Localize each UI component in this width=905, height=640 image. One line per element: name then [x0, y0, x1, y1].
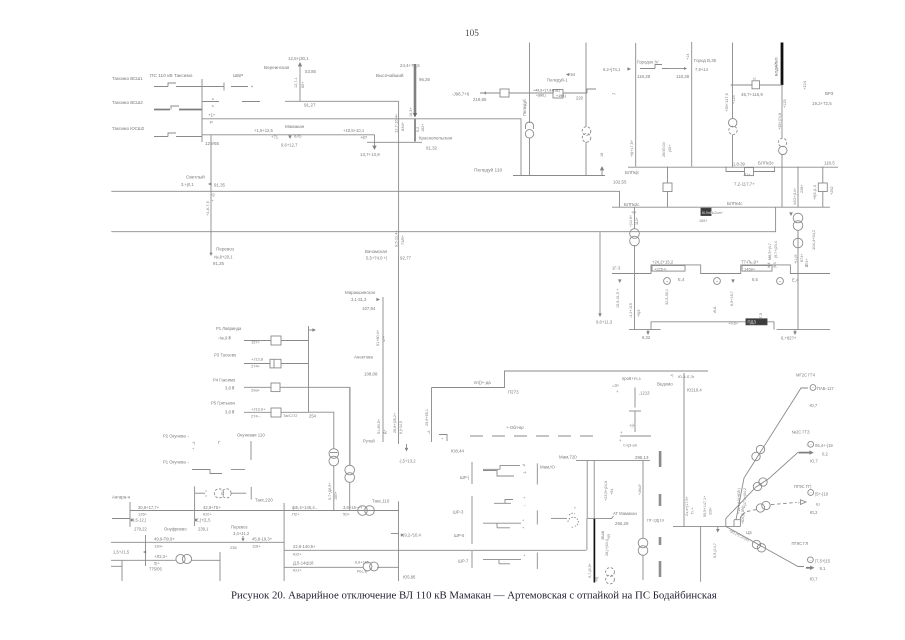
wire riser from long line to fault point [586, 518, 588, 549]
svg-text:+35+|74,6: +35+|74,6 [778, 113, 782, 130]
svg-text:←: ← [522, 470, 526, 475]
svg-text:22,6-140,5+: 22,6-140,5+ [293, 544, 316, 549]
svg-text:108,08: 108,08 [364, 372, 378, 377]
svg-text:19,2-/10,4: 19,2-/10,4 [402, 533, 422, 538]
svg-text:П,-+: П,-+ [691, 507, 695, 514]
svg-text:256,29: 256,29 [615, 521, 629, 526]
svg-text:112+: 112+ [635, 217, 639, 225]
breaker chain x=667.5 [667, 167, 669, 184]
svg-text:Таксимо ВСШ2: Таксимо ВСШ2 [112, 100, 143, 105]
svg-text:Ю,7: Ю,7 [810, 577, 818, 582]
wire lower tie y=321.8 [651, 322, 774, 330]
svg-text:Р1 Лавринда: Р1 Лавринда [216, 326, 242, 331]
svg-text:Мамакан: Мамакан [285, 124, 305, 129]
svg-text:Ю5,86: Ю5,86 [403, 575, 416, 580]
svg-text:29,9+65,1: 29,9+65,1 [425, 409, 429, 426]
svg-text:0,7+Д6,9+: 0,7+Д6,9+ [328, 482, 332, 500]
svg-text:+5|9: +5|9 [637, 310, 641, 317]
generator symbol GG4 [810, 385, 816, 391]
svg-text:6,5: 6,5 [752, 277, 758, 282]
svg-text:3,6+15—+: 3,6+15—+ [343, 505, 363, 510]
svg-text:+23,5+|24,6: +23,5+|24,6 [604, 481, 608, 501]
svg-text:874+: 874+ [805, 258, 809, 267]
svg-text:Р3 Тасеево: Р3 Тасеево [214, 353, 237, 358]
load arrow Vereinskaya [299, 64, 301, 101]
svg-text:Ю2+: Ю2+ [293, 552, 302, 557]
svg-text:9,6+12,7: 9,6+12,7 [281, 143, 298, 148]
svg-text:42,9+Г5+: 42,9+Г5+ [203, 505, 221, 510]
svg-text:ШР-|: ШР-| [460, 475, 469, 480]
svg-text:50+: 50+ [343, 512, 350, 517]
wire left stub [112, 518, 130, 520]
svg-text:295,13: 295,13 [635, 455, 649, 460]
svg-text:+6?: +6? [360, 135, 368, 140]
fault squiggle on Mamakan-Artemovskaya line [551, 517, 567, 519]
wire double drop from Mam220 bus [586, 461, 588, 519]
generator branch GL (diagonal down) [726, 526, 804, 566]
wire line y=93 with breakers [480, 89, 596, 93]
svg-text:Д,5-14ф18: Д,5-14ф18 [293, 561, 314, 566]
line Vysochaishiy (bold) [414, 64, 417, 114]
bus Mam 220 [576, 460, 650, 462]
svg-text:96,26: 96,26 [419, 77, 431, 82]
bypass with breaker (1,8-39) [726, 167, 775, 172]
svg-text:-J98,7+6: -J98,7+6 [452, 92, 470, 97]
svg-text:Е,|+|1,5: Е,|+|1,5 [196, 518, 211, 523]
svg-text:№,8+20,1: №,8+20,1 [214, 255, 233, 260]
svg-text:30,6+17,7+: 30,6+17,7+ [138, 505, 160, 510]
ShR row 2 jog [494, 500, 513, 504]
wire x=431.5 drop [431, 388, 433, 443]
svg-text:3,8 ₴: 3,8 ₴ [225, 386, 235, 391]
svg-text:3,4+J1,2: 3,4+J1,2 [233, 531, 250, 536]
bus Okunevaya vertical [308, 326, 310, 412]
svg-text:91,35: 91,35 [214, 183, 226, 188]
svg-text:ПАБ-117: ПАБ-117 [817, 386, 834, 391]
svg-text:91,27: 91,27 [304, 103, 316, 108]
svg-text:+9|9-|1,3: +9|9-|1,3 [813, 185, 817, 200]
svg-text:Ведомо: Ведомо [657, 382, 673, 387]
svg-text:12,7-1: 12,7-1 [294, 77, 298, 88]
svg-text:Р4 Гаксимо: Р4 Гаксимо [213, 378, 236, 383]
svg-text:15,9-31,5 +: 15,9-31,5 + [616, 288, 620, 308]
svg-text:0,2: 0,2 [822, 452, 828, 457]
arrow 9,1 [806, 567, 811, 569]
svg-text:92,77: 92,77 [400, 256, 412, 261]
svg-text:ШР-7: ШР-7 [458, 559, 469, 564]
svg-text:+26ы?: +26ы? [638, 484, 642, 495]
svg-text:Перевоз: Перевоз [216, 247, 234, 252]
svg-text:6,9+16,7: 6,9+16,7 [730, 291, 734, 306]
wire x=600 drop with arrow [599, 232, 601, 315]
svg-text:+|: +| [427, 430, 430, 434]
wire riser x=684 [683, 373, 685, 526]
bus vertical x=284 [283, 503, 285, 581]
svg-text:6,2+j74,1: 6,2+j74,1 [603, 67, 621, 72]
svg-text:Пеледуй-1: Пеледуй-1 [547, 78, 568, 83]
svg-text:АЧ1: АЧ1 [713, 306, 717, 313]
wire long corridor line A (y=191) [111, 191, 619, 207]
svg-text:Окуневая 110: Окуневая 110 [237, 433, 265, 438]
load arrow 13,7+13,9 [374, 142, 376, 148]
svg-text:5|+: 5|+ [154, 561, 160, 566]
wire line BLPk1s y=166.5 [628, 166, 838, 168]
svg-text:Вереинская: Вереинская [264, 65, 290, 70]
svg-text:91,25: 91,25 [213, 261, 225, 266]
svg-text:6,6+185—: 6,6+185— [355, 561, 373, 565]
transformer 3-winding at x=798 [789, 212, 793, 216]
svg-text:239,1: 239,1 [198, 527, 209, 532]
svg-text:Мам,Ю: Мам,Ю [540, 465, 555, 470]
transformer 2-winding x=635 [630, 229, 640, 239]
svg-text:*: * [574, 506, 576, 511]
svg-text:155+: 155+ [699, 219, 708, 223]
svg-text:Ю2+: Ю2+ [203, 512, 212, 517]
svg-text:Такс,110: Такс,110 [372, 499, 390, 504]
wire Svetlyi vertical [210, 135, 212, 255]
svg-text:9,1: 9,1 [820, 566, 826, 571]
generator symbol GG3 [808, 441, 814, 447]
svg-text:т.п(3-ап: т.п(3-ап [623, 443, 637, 448]
svg-text:Онуфриево: Онуфриево [164, 527, 187, 532]
svg-text:51-80,5+: 51-80,5+ [377, 418, 381, 434]
svg-text:162+: 162+ [421, 123, 425, 132]
transformer 2w at x=349.7 [349, 387, 351, 465]
svg-text:Городок IV: Городок IV [637, 60, 659, 65]
svg-text:5,2: 5,2 [416, 127, 420, 132]
svg-text:-№,9 ₴: -№,9 ₴ [218, 336, 232, 341]
svg-text:316+: 316+ [709, 507, 713, 515]
svg-text:13,7+13,9: 13,7+13,9 [360, 152, 380, 157]
svg-text:Краснопольская: Краснопольская [419, 136, 453, 141]
svg-text:130+: 130+ [154, 544, 164, 549]
svg-text:Таксимо ВСШ1: Таксимо ВСШ1 [112, 76, 143, 81]
svg-text:ШР-3: ШР-3 [453, 510, 464, 515]
svg-text:БОДАЙБО: БОДАЙБО [775, 57, 779, 76]
breaker Q1 [500, 89, 509, 97]
svg-text:228+: 228+ [800, 184, 804, 193]
feeder vertical x=732.5 with transformer [732, 43, 734, 119]
svg-text:БЛПк4с: БЛПк4с [727, 201, 743, 206]
svg-text:9,5-11,4+: 9,5-11,4+ [394, 230, 399, 247]
svg-text:+190,|: +190,| [556, 94, 566, 98]
svg-text:6,|+14,5: 6,|+14,5 [399, 421, 403, 434]
svg-text:+05: +05 [607, 534, 611, 540]
vertical x=194.6 to transformer 220/110 [194, 486, 196, 526]
svg-text:49,9-П9,9+: 49,9-П9,9+ [154, 537, 175, 542]
svg-text:Д+: Д+ [383, 429, 387, 434]
svg-text:2ч,з+|17,5+: 2ч,з+|17,5+ [685, 496, 689, 516]
wire line BLPk2s y=207.2 [612, 206, 830, 208]
svg-text:Р: Р [210, 120, 213, 125]
svg-text:51+80,4+: 51+80,4+ [376, 329, 380, 346]
svg-text:-71+: -71+ [743, 173, 751, 177]
svg-text:Вачамская: Вачамская [365, 249, 388, 254]
svg-text:7,9+14: 7,9+14 [695, 67, 709, 72]
svg-text:ПГ9С ГЛ: ПГ9С ГЛ [792, 541, 809, 546]
svg-text:Ц5: Ц5 [746, 530, 752, 535]
svg-text:53,85: 53,85 [305, 69, 317, 74]
svg-text:118+: 118+ [252, 544, 261, 549]
wire stub down x=635 with open disconnector [634, 388, 636, 408]
svg-text:219,85: 219,85 [473, 97, 487, 102]
svg-text:-4,2+J19: -4,2+J19 [629, 303, 633, 318]
svg-text:№2С ГГЗ: №2С ГГЗ [792, 430, 810, 435]
line y=567 with transformer circles [284, 566, 399, 568]
svg-text:+|8Ю,|: +|8Ю,| [536, 94, 546, 98]
bus Bodaibinskaya 110 [673, 525, 740, 527]
wire bottom stub right [777, 329, 830, 331]
svg-text:3,8 ₴: 3,8 ₴ [225, 410, 235, 415]
svg-text:+225+|: +225+| [654, 266, 666, 271]
svg-text:19,2+72,5: 19,2+72,5 [812, 101, 832, 106]
svg-text:17+: 17+ [382, 336, 386, 342]
svg-text:ПС 110 кВ Таксимо: ПС 110 кВ Таксимо [150, 73, 193, 79]
svg-text:5,9-|14,7: 5,9-|14,7 [713, 543, 717, 558]
svg-text:+125: +125 [783, 99, 787, 108]
svg-text:**-: **- [612, 92, 617, 97]
svg-text:104,4+34,2: 104,4+34,2 [811, 229, 816, 250]
svg-text:Светлый: Светлый [186, 174, 205, 180]
svg-text:+71: +71 [271, 135, 279, 140]
svg-text:+J13,8: +J13,8 [251, 357, 264, 362]
wire Artemovskaya trunk lower x=398.5 [398, 256, 400, 444]
feeder vertical x=586 with transformer [585, 43, 587, 128]
svg-text:№4: №4 [767, 262, 771, 268]
svg-text:3,1-31,3: 3,1-31,3 [351, 297, 367, 302]
step bracket left of Mam bus [483, 471, 514, 477]
svg-text:ВРЗ: ВРЗ [825, 91, 834, 96]
riser stubs to diagonals [726, 517, 741, 526]
generator branch GG3 (diagonal) [726, 452, 798, 518]
wire stub right of bus [202, 101, 219, 103]
svg-text:ШР-5: ШР-5 [454, 533, 465, 538]
svg-text:про8+гч,з: про8+гч,з [622, 376, 641, 381]
wire line y=371 (otpaika corridor) [432, 371, 709, 388]
long line y=550 to fault riser [284, 549, 587, 551]
generator symbol GG1 [808, 490, 814, 496]
svg-text:Маракшинское: Маракшинское [345, 290, 376, 295]
svg-text:279,22: 279,22 [134, 527, 147, 532]
svg-text:+|17,3+|04,2: +|17,3+|04,2 [743, 488, 747, 508]
svg-text:|7,5+|15: |7,5+|15 [815, 559, 831, 564]
bus 1G-3 with raised sections [612, 265, 830, 274]
line y=542 Perevoz [111, 541, 284, 543]
wire corner x=775.6 linking y207 and y232 [775, 207, 777, 232]
svg-text:118,5: 118,5 [824, 161, 835, 166]
transformer 2w at x=333.8 [329, 449, 339, 459]
wire drop x=700.6 [700, 526, 702, 581]
svg-text:73/5+: 73/5+ [400, 234, 405, 245]
svg-text:Пеледуй: Пеледуй [522, 99, 527, 116]
svg-text:+|+: +|+ [629, 423, 636, 428]
svg-text:П2+: П2+ [292, 512, 300, 517]
svg-text:50,5+147,1+: 50,5+147,1+ [703, 495, 707, 517]
generator branch GG1 (dashed, disconnected) [740, 513, 745, 518]
svg-text:874+: 874+ [800, 253, 804, 262]
bus vertical x=398.5 lower [398, 501, 400, 581]
svg-text:+10,5+10,1: +10,5+10,1 [343, 128, 365, 133]
svg-text:←: ← [523, 503, 527, 508]
L stub bottom left [111, 560, 122, 581]
generator G1 symbol [664, 278, 671, 285]
svg-text:|40+: |40+ [668, 144, 672, 152]
svg-text:220: 220 [576, 96, 584, 101]
svg-text:Ю,7: Ю,7 [810, 403, 818, 408]
svg-text:Таксимо ЮСШ2: Таксимо ЮСШ2 [112, 126, 145, 131]
wire line 91,27 [285, 100, 399, 102]
svg-text:18: 18 [600, 153, 604, 157]
svg-text:+J13,9+: +J13,9+ [251, 407, 266, 412]
svg-text:9,6+11,3: 9,6+11,3 [596, 320, 613, 325]
junction box dark [701, 208, 711, 215]
feeder Gorod B with arrow [691, 42, 693, 167]
line y=560 with transformer circles [111, 559, 176, 561]
svg-text:+44,9+17,9+|18,|: +44,9+17,9+|18,| [533, 89, 560, 93]
disconnected transformer (dashed circles) [606, 568, 615, 577]
wire transformer leg x=635 down to 1G-3 lower bus [634, 207, 636, 229]
wire Mamakan line [202, 135, 422, 143]
wire long corridor line B (y=231.7) [111, 231, 775, 233]
svg-text:44/2+|14+: 44/2+|14+ [793, 187, 797, 205]
svg-text:254: 254 [309, 414, 317, 419]
svg-text:Высочайший: Высочайший [376, 72, 404, 78]
svg-text:+14: +14 [686, 54, 690, 60]
wire feeder row 2 (thick) [154, 109, 170, 111]
svg-text:+|1,|5: +|1,|5 [794, 255, 798, 264]
bus Peledui 110 [513, 175, 605, 177]
svg-text:Город В,35: Город В,35 [694, 58, 717, 63]
svg-text:ПГ9С ГГ|: ПГ9С ГГ| [794, 484, 811, 489]
svg-text:29а+: 29а+ [251, 388, 261, 393]
svg-text:ЗВАВ: ЗВАВ [601, 530, 605, 540]
svg-text:|9,7+|20,4: |9,7+|20,4 [774, 241, 778, 258]
svg-text:Ангара-н: Ангара-н [112, 495, 131, 500]
svg-text:5,5+74,0 +|: 5,5+74,0 +| [366, 256, 387, 261]
generator G3 symbol [777, 278, 784, 285]
svg-text:60+: 60+ [301, 81, 305, 88]
svg-text:=3+: =3+ [612, 383, 620, 388]
svg-text:9,7-|6,5+: 9,7-|6,5+ [588, 562, 592, 578]
svg-text:ПГ-2Д|19: ПГ-2Д|19 [647, 518, 665, 523]
svg-text:-|,5+13,2: -|,5+13,2 [399, 459, 416, 464]
wire Anektova vertical x=383 [382, 297, 384, 442]
svg-text:+|: +| [192, 441, 195, 445]
svg-text:1459+: 1459+ [744, 266, 756, 271]
svg-text:+6|+17,5+: +6|+17,5+ [630, 139, 634, 157]
svg-text:|9,3: |9,3 [773, 262, 777, 268]
svg-text:Рес,э|: Рес,э| [357, 570, 367, 574]
svg-text:12,7-16,4+: 12,7-16,4+ [394, 113, 399, 133]
svg-text:1,8-39: 1,8-39 [733, 162, 746, 167]
svg-text:Ручей: Ручей [363, 439, 375, 444]
svg-text:+125: +125 [732, 95, 736, 104]
svg-text:БЛПкЗс: БЛПкЗс [758, 161, 774, 166]
svg-text:ТагС/72: ТагС/72 [283, 413, 298, 418]
svg-text:АТ Мамакан: АТ Мамакан [613, 511, 638, 516]
bus line Taksimo 110 y=510.5 [130, 510, 399, 512]
feeder Peledui-1 vertical with 2-winding transformer [529, 43, 531, 124]
svg-text:+|: +| [670, 373, 673, 378]
svg-text:Р2 Окунева→: Р2 Окунева→ [163, 434, 190, 439]
svg-text:16,3+: 16,3+ [409, 107, 413, 117]
svg-text:МГ2С ГГ4: МГ2С ГГ4 [796, 373, 816, 378]
svg-text:Рисунок 20. Аварийное отключен: Рисунок 20. Аварийное отключение ВЛ 110 … [231, 590, 717, 602]
svg-text:Т7-Пь,9+: Т7-Пь,9+ [741, 260, 759, 265]
svg-text:3,+j0,1: 3,+j0,1 [181, 182, 194, 187]
wire main line 110kV upper (to Peledui) [202, 119, 521, 176]
wire Artemovskaya vertical trunk [398, 101, 400, 256]
bold gray dashed vertical x=660 [659, 494, 662, 577]
svg-text:+124: +124 [802, 80, 807, 90]
svg-text:ШБР: ШБР [233, 73, 243, 78]
svg-text:П27З: П27З [508, 390, 519, 395]
svg-text:105: 105 [465, 28, 479, 38]
svg-text:Перевоз: Перевоз [231, 525, 247, 530]
feeder Gorodok IV [635, 43, 637, 167]
svg-text:Пеледуй 110: Пеледуй 110 [474, 167, 503, 174]
tee line y=436 [620, 435, 651, 437]
ShR row 3 jog [483, 523, 521, 528]
svg-text:+94: +94 [610, 489, 614, 495]
svg-text:274←: 274← [251, 414, 262, 419]
generator G2 symbol [714, 278, 721, 285]
svg-text:775/05: 775/05 [149, 567, 162, 572]
svg-text:6,+82?+: 6,+82?+ [781, 336, 797, 341]
svg-text:М8,9+|4,7: М8,9+|4,7 [768, 243, 772, 260]
svg-text:274+: 274+ [251, 364, 261, 369]
svg-text:Ю,7: Ю,7 [810, 459, 818, 464]
svg-text:Ю219,4: Ю219,4 [687, 388, 702, 393]
svg-text:05,4+-|19: 05,4+-|19 [815, 443, 833, 448]
svg-text:ω: ω [753, 77, 756, 81]
svg-text:834+: 834+ [400, 121, 405, 131]
svg-text:32,5-30,1: 32,5-30,1 [665, 289, 669, 305]
svg-text:1,5+J1,5: 1,5+J1,5 [113, 550, 130, 555]
svg-text:12,6+j30,1: 12,6+j30,1 [288, 56, 309, 61]
ShR row 4 jog [483, 560, 521, 564]
breaker chain x=822.8 [822, 167, 824, 184]
svg-text:+-Обл-вр: +-Обл-вр [506, 425, 524, 430]
svg-text:Р5 Гритьевн: Р5 Гритьевн [211, 401, 236, 406]
svg-text:126+: 126+ [138, 512, 148, 517]
svg-text:Р1 Окунева→: Р1 Окунева→ [163, 460, 190, 465]
svg-text:45,8-19,3+: 45,8-19,3+ [252, 537, 273, 542]
generator symbol GL [808, 557, 814, 563]
open point arrow [406, 444, 408, 449]
breaker Q2 [553, 90, 563, 99]
svg-text:28/45,04: 28/45,04 [662, 142, 666, 157]
svg-text:102,55: 102,55 [613, 180, 627, 185]
line VL Bodaibo (bold black) [781, 43, 784, 86]
bold gray bar at bus right end [659, 451, 662, 467]
svg-text:Ю,3-Л,Зг: Ю,3-Л,Зг [678, 374, 695, 379]
wire feeder row 1 with disconnector jog [154, 83, 224, 91]
svg-text:8Л5: 8Л5 [294, 134, 302, 139]
svg-text:Ю,9н6: Ю,9н6 [702, 211, 712, 215]
generator branch GG4 (diagonal) [736, 388, 808, 520]
wire vertical x=798 with labels [797, 167, 799, 208]
svg-text:45,7+116,9: 45,7+116,9 [741, 92, 763, 97]
wire vertical x=798 lower [797, 274, 799, 330]
transformer on bus line (2 circles) [358, 506, 368, 516]
svg-text:9,5-12,|: 9,5-12,| [132, 518, 146, 523]
sectional bus ShR dashed vertical [471, 462, 473, 568]
svg-text:24,4+75,5: 24,4+75,5 [400, 63, 420, 68]
svg-text:+39+117,6: +39+117,6 [724, 92, 729, 112]
svg-text:Ю1+: Ю1+ [293, 568, 302, 573]
svg-text:ь: ь [212, 104, 214, 108]
